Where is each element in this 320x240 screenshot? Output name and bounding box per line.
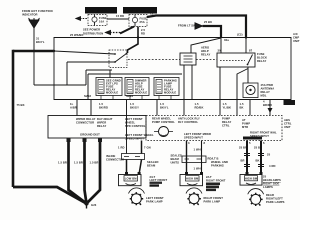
motor M1 label (261, 83, 275, 98)
svg-text:PARK LAMP: PARK LAMP (204, 200, 221, 204)
svg-text:PUMP: PUMP (222, 117, 230, 121)
svg-text:INLINE: INLINE (106, 154, 116, 158)
svg-text:4 RD: 4 RD (269, 164, 276, 168)
svg-text:LEFT FRONT MRKR: LEFT FRONT MRKR (184, 132, 211, 136)
ground pin 1 (67, 138, 71, 142)
svg-text:87: 87 (249, 49, 253, 53)
inline connector mid pair (182, 156, 206, 163)
headlamp switch S1 dashed box (109, 50, 127, 68)
svg-text:S202: S202 (84, 94, 91, 98)
svg-text:1.5: 1.5 (195, 102, 199, 106)
dark label bar on cluster edge (243, 137, 262, 140)
wire contact jog down (237, 69, 248, 100)
svg-text:CMP: CMP (293, 36, 299, 40)
svg-text:HIGH BM: HIGH BM (186, 177, 199, 181)
junction block text 4 (125, 133, 154, 141)
svg-text:HOT AT ALL TIMES: HOT AT ALL TIMES (86, 9, 118, 13)
svg-text:BEAM: BEAM (147, 164, 156, 168)
svg-text:BLOCK: BLOCK (257, 56, 267, 60)
svg-text:BK/GY: BK/GY (130, 106, 139, 110)
svg-text:PARK LAMP: PARK LAMP (146, 200, 163, 204)
svg-text:25 BK: 25 BK (254, 146, 262, 150)
svg-text:BR/RD: BR/RD (263, 103, 272, 107)
svg-text:6: 6 (263, 141, 265, 145)
left lamp text (150, 175, 168, 187)
svg-text:3: 3 (188, 141, 190, 145)
svg-text:MDL: MDL (261, 94, 267, 98)
mid high beam unit box (180, 175, 203, 186)
svg-text:LOW BM: LOW BM (125, 177, 137, 181)
connector tag C1 right (284, 100, 296, 105)
svg-text:SPEED INPUT: SPEED INPUT (125, 137, 144, 141)
dashed arrow SEE POWER DISTRIBUTION (106, 31, 122, 35)
svg-text:UNIT: UNIT (284, 125, 291, 129)
svg-text:PARKING: PARKING (211, 164, 224, 168)
wire fuse F4 down (128, 27, 139, 54)
svg-text:8: 8 (204, 141, 206, 145)
mid park lamp symbol (186, 188, 202, 205)
svg-text:RELAY: RELAY (261, 90, 270, 94)
svg-text:RIGHT FRONT: RIGHT FRONT (204, 196, 224, 200)
svg-text:1.5: 1.5 (130, 102, 134, 106)
thick feed wire fuse F4 to right bus (147, 16, 246, 38)
svg-text:GROUND DIST: GROUND DIST (80, 133, 100, 137)
inline connector right pair (double splices) (244, 154, 264, 167)
pin 30 (218, 49, 222, 53)
driver module box B (125, 78, 149, 96)
svg-text:RIGHT SIDE: RIGHT SIDE (263, 182, 279, 186)
right park lamp label (266, 193, 285, 204)
pin wire to junction block (1) (76, 100, 78, 116)
arrow to power distribution (left of fuse F3) (76, 17, 88, 21)
wire label lamp1 (130, 102, 139, 110)
svg-text:CONNECTOR: CONNECTOR (106, 158, 124, 162)
mid high beam wires (186, 141, 188, 175)
wire label right 1 (239, 146, 247, 150)
pin 30a label (224, 38, 229, 42)
svg-text:25 WS/BK: 25 WS/BK (70, 33, 84, 37)
inner lamp-driver sub box (88, 74, 182, 100)
cluster text 4 (242, 118, 250, 129)
svg-text:S203: S203 (126, 94, 133, 98)
left headlamp wire 2 (cluster to lamp) (141, 141, 143, 154)
svg-text:UNIT: UNIT (293, 39, 300, 43)
splice label S202 (84, 94, 91, 98)
svg-text:MODULE: MODULE (164, 91, 176, 95)
pin 87 (249, 49, 253, 53)
svg-text:RELAY: RELAY (257, 59, 266, 63)
splice label S203 (126, 94, 133, 98)
wire label right 2 (254, 146, 262, 150)
svg-text:RELAY: RELAY (97, 124, 106, 128)
mid lamp dark bars (206, 183, 220, 192)
svg-text:ANTI-LOCK RLY: ANTI-LOCK RLY (178, 117, 200, 121)
wire label 15 RD (116, 14, 124, 18)
svg-text:RELAY: RELAY (222, 120, 231, 124)
svg-text:ANTENNA: ANTENNA (261, 87, 275, 91)
svg-text:PUMP: PUMP (242, 122, 250, 126)
wire label 75 BK (17, 103, 25, 107)
ground wire 1 (69, 142, 87, 204)
svg-text:BK/RD: BK/RD (99, 106, 108, 110)
svg-text:LEFT FRONT: LEFT FRONT (150, 178, 168, 182)
svg-text:FROM LT SW: FROM LT SW (178, 24, 196, 28)
svg-text:LEFT FRONT WHEEL: LEFT FRONT WHEEL (125, 133, 154, 137)
label SEE POWER DISTRIBUTION (83, 28, 103, 36)
label plug connector mid (171, 154, 183, 165)
svg-text:RD/LT B: RD/LT B (208, 157, 219, 161)
junction block text 3 (125, 117, 146, 128)
svg-text:MTR: MTR (242, 125, 248, 129)
svg-text:1 RD: 1 RD (118, 146, 125, 150)
relay pin wires into cluster (183, 100, 185, 116)
cluster feed wire (156, 100, 158, 116)
wire label pin2 (99, 102, 108, 110)
svg-text:WHEEL AND: WHEEL AND (211, 160, 228, 164)
svg-text:RIGHT/LEFT: RIGHT/LEFT (266, 197, 283, 201)
headlamp module main box (54, 38, 291, 100)
pump wires into cluster (220, 100, 237, 116)
junction thick bus (245, 36, 247, 38)
svg-text:FUSE: FUSE (257, 52, 265, 56)
wire label C2 (150, 12, 154, 16)
svg-text:G23: G23 (91, 203, 97, 207)
svg-text:RIGHT FRONT: RIGHT FRONT (206, 179, 226, 183)
svg-text:HEADLAMPS: HEADLAMPS (263, 178, 281, 182)
junction connector block box (48, 116, 146, 139)
svg-text:CONNECTOR: CONNECTOR (76, 121, 94, 125)
wire label mid 1 (194, 148, 201, 152)
svg-text:HIGH BM: HIGH BM (245, 177, 258, 181)
svg-text:1 WH: 1 WH (194, 167, 201, 171)
svg-text:HDLP: HDLP (201, 49, 209, 53)
right feed wire (269, 100, 271, 116)
ground point G23 (84, 201, 88, 208)
svg-text:15 RD: 15 RD (116, 14, 124, 18)
relay K1 label (201, 46, 210, 57)
wire to switch mid contact (67, 62, 115, 85)
svg-text:75 BK: 75 BK (17, 103, 25, 107)
label FROM HID FUNCTION INDICATOR (22, 9, 53, 17)
indicator lamp L1 (154, 127, 173, 137)
svg-text:BK: BK (240, 106, 244, 110)
header HOT AT ALL TIMES (left) (85, 7, 117, 14)
svg-text:LAMPS: LAMPS (263, 185, 273, 189)
wire label mid 2 (194, 167, 201, 171)
junction fuse wire on bus (137, 36, 139, 38)
ground wire 3 (87, 142, 101, 204)
headlamp door relay coil K1 (180, 53, 196, 65)
inline connector label (106, 154, 124, 162)
wire label 31 BK/YL (36, 37, 45, 45)
svg-text:DAY-NIGHT: DAY-NIGHT (97, 117, 113, 121)
wire contact to motor (247, 67, 249, 83)
cluster text 2 (178, 117, 200, 125)
svg-text:PARK LAMPS: PARK LAMPS (266, 200, 285, 204)
svg-text:1 WH: 1 WH (194, 148, 201, 152)
ground wire label 1 (58, 161, 67, 165)
svg-text:10A: 10A (99, 20, 104, 24)
thick branch to see power distribution (120, 27, 134, 34)
svg-text:MODULE: MODULE (135, 91, 147, 95)
left low beam wire 1 lower (126, 160, 128, 175)
connector label mid (208, 157, 219, 161)
wire fuse F3 to fuse F4 (107, 18, 129, 20)
wire contact branch down (219, 67, 221, 100)
wire label 2.5 RD (141, 28, 145, 36)
cluster text 6 (250, 131, 277, 139)
relay K2 label (257, 52, 267, 63)
wire label 25 WS on bus (70, 33, 84, 37)
svg-text:25A: 25A (140, 20, 145, 24)
ground wire label 2 (74, 161, 83, 165)
right park lamp symbol (248, 189, 264, 206)
left headlamp wire 1 (126, 100, 128, 154)
wire label pump1 (223, 102, 232, 110)
wire to switch lower branch (86, 70, 112, 85)
inline connector left pair (122, 154, 145, 160)
connector arrow on right feed (268, 108, 273, 113)
wire label cluster feed (160, 102, 169, 110)
svg-text:RELAY: RELAY (201, 53, 210, 57)
ground label G23 (91, 203, 97, 207)
svg-text:A/C: A/C (293, 32, 298, 36)
svg-text:2/LT: 2/LT (206, 175, 212, 179)
ground wire label 3 (90, 161, 99, 165)
svg-text:FUSE: FUSE (140, 17, 148, 21)
svg-text:1.5 BR: 1.5 BR (74, 161, 83, 165)
svg-text:25: 25 (267, 153, 271, 157)
left park lamp symbol (129, 188, 145, 205)
stub wire into box A (109, 70, 111, 78)
mid lamp text (206, 175, 226, 183)
svg-text:RD/BK: RD/BK (195, 106, 204, 110)
svg-text:INDICATOR: INDICATOR (22, 13, 38, 17)
label sealed beam left (147, 160, 159, 168)
svg-text:1.5 BR: 1.5 BR (58, 161, 67, 165)
svg-text:BK/YL: BK/YL (36, 40, 45, 44)
svg-text:PUMP CONTROL: PUMP CONTROL (152, 120, 175, 124)
right high beam unit box (240, 175, 262, 186)
fuse F4 dashed box (129, 15, 147, 27)
svg-text:SPD CONTROL: SPD CONTROL (125, 124, 146, 128)
cluster text 3 (222, 117, 231, 128)
wire to switch upper contact (54, 51, 115, 54)
svg-text:5: 5 (249, 141, 251, 145)
svg-text:YL/BK: YL/BK (223, 106, 232, 110)
thick ground run bottom (13, 187, 87, 204)
svg-text:WIPER: WIPER (97, 121, 106, 125)
svg-text:C1: C1 (287, 101, 291, 105)
svg-text:7 GN: 7 GN (144, 146, 151, 150)
svg-text:RIGHT FRONT WHL: RIGHT FRONT WHL (250, 131, 277, 135)
svg-text:BEAM: BEAM (171, 157, 180, 161)
wire label pin1 (70, 102, 77, 110)
svg-text:FROM HOT FUNCTION: FROM HOT FUNCTION (22, 9, 53, 13)
svg-text:2.5: 2.5 (141, 28, 145, 32)
wire pin87 up (245, 38, 247, 54)
ground wire 2 (85, 142, 87, 204)
svg-text:30a: 30a (224, 38, 229, 42)
label module right top (293, 32, 300, 43)
right high beam wires (247, 141, 261, 175)
label wheel and parking (211, 160, 228, 168)
left low beam unit box (119, 175, 142, 186)
driver module box C (154, 78, 179, 96)
washer pump motor M1 (243, 83, 258, 98)
interior bus wire (34, 84, 86, 86)
svg-text:MODULE: MODULE (106, 91, 118, 95)
right lamp text (263, 175, 281, 190)
left park lamp label (146, 196, 164, 204)
svg-text:BK: BK (256, 159, 260, 163)
left low beam wire 2 lower (139, 160, 142, 175)
svg-text:AT: AT (242, 118, 246, 122)
fuse F3 dashed box (88, 15, 107, 26)
junction block name (80, 133, 100, 137)
svg-text:ABS: ABS (284, 118, 290, 122)
svg-text:1.5: 1.5 (160, 102, 164, 106)
ground pin 3 (98, 138, 102, 142)
svg-text:RLY CONTROL: RLY CONTROL (178, 120, 198, 124)
svg-text:FUSE: FUSE (99, 16, 107, 20)
svg-text:1.5: 1.5 (223, 102, 227, 106)
svg-text:LEFT FRONT: LEFT FRONT (146, 196, 164, 200)
svg-text:45A PWR: 45A PWR (261, 83, 274, 87)
svg-text:1.5 BR: 1.5 BR (90, 161, 99, 165)
instrument cluster dashed box (146, 116, 282, 141)
wire pin30 up (220, 38, 222, 54)
thick wire left vertical run (12, 50, 15, 187)
svg-text:1.5: 1.5 (99, 102, 103, 106)
svg-text:31: 31 (36, 37, 40, 41)
cluster text 5 (184, 132, 211, 140)
wire from arrow down (33, 28, 35, 85)
svg-text:BR: BR (241, 159, 245, 163)
pin wire to junction block (2) (90, 100, 92, 116)
off-page connector arrow A1 (29, 18, 40, 28)
wire coil to bus diagonal (191, 38, 221, 53)
svg-text:1L: 1L (70, 102, 74, 106)
cluster label right (284, 118, 292, 129)
mid park lamp label (204, 196, 224, 204)
svg-text:WIPER RELAY: WIPER RELAY (76, 117, 96, 121)
label FROM LIGHT SWITCH (178, 24, 196, 28)
wire into box left (34, 84, 54, 86)
driver module box A (96, 78, 122, 96)
svg-text:CTRL: CTRL (222, 124, 230, 128)
wire label right mid (241, 153, 276, 169)
relay contact box K2 (217, 53, 255, 67)
svg-text:DISTRIBUTION: DISTRIBUTION (83, 32, 103, 36)
svg-text:BK/YL: BK/YL (160, 106, 169, 110)
cluster text 1 (152, 117, 175, 125)
svg-text:LEFT FRONT: LEFT FRONT (125, 117, 143, 121)
off-page connector arrow A2 (195, 23, 203, 29)
mechanical linkage dashed (128, 59, 217, 61)
svg-text:1.5: 1.5 (240, 102, 244, 106)
svg-text:SEALED: SEALED (171, 154, 183, 158)
thick wire left feed (13, 50, 54, 52)
thick wire from arrow to module (203, 26, 222, 38)
junction block text 1 (76, 117, 96, 125)
motor pin wire (249, 100, 251, 116)
wire label low beam 2 (144, 146, 151, 150)
svg-text:SPEED INPUT: SPEED INPUT (184, 136, 203, 140)
junction left feed (53, 50, 55, 52)
svg-text:REAR: REAR (266, 193, 274, 197)
wire label motor pin (263, 100, 272, 108)
stub wires module boxes to bottom edge (101, 96, 171, 100)
wire label 25 BK (204, 20, 212, 24)
svg-text:A/BR: A/BR (70, 106, 77, 110)
pin blocks at lamp unit entries (125, 172, 263, 175)
header HOT AT ALL TIMES (right) (123, 7, 157, 14)
wire coil pins down (184, 65, 192, 100)
svg-text:SEE POWER: SEE POWER (83, 28, 100, 32)
svg-text:4: 4 (263, 100, 265, 104)
svg-text:25: 25 (263, 175, 267, 179)
svg-text:REAR WHEEL: REAR WHEEL (152, 117, 171, 121)
svg-text:WHEEL: WHEEL (125, 121, 135, 125)
pin tick labels cluster bottom (188, 141, 265, 145)
svg-text:25 BR: 25 BR (239, 146, 247, 150)
wire label relay pins (195, 102, 204, 110)
pin label C2 right (237, 33, 243, 37)
svg-text:UNITS: UNITS (171, 161, 180, 165)
wire label low beam 1 (118, 146, 125, 150)
svg-text:SEALED: SEALED (147, 160, 159, 164)
svg-text:25 BK: 25 BK (204, 20, 212, 24)
svg-text:AERO: AERO (201, 46, 209, 50)
svg-text:RD: RD (141, 32, 145, 36)
ground pin 2 (83, 138, 87, 142)
junction block text 2 (97, 117, 113, 128)
svg-text:CTRL: CTRL (284, 122, 292, 126)
svg-text:(C2): (C2) (237, 33, 243, 37)
wire label pump2 (240, 102, 244, 110)
